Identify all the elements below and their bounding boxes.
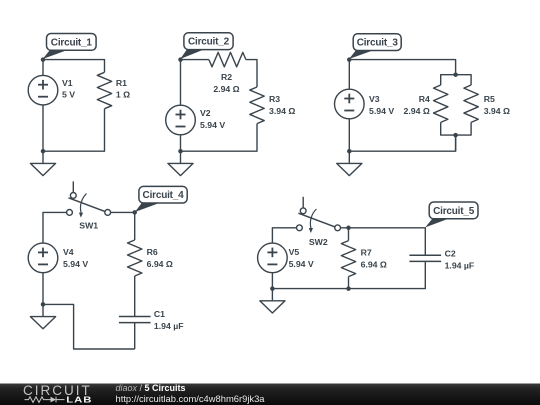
svg-text:3.94 Ω: 3.94 Ω: [269, 106, 295, 116]
svg-text:R6: R6: [147, 247, 158, 257]
svg-text:2.94 Ω: 2.94 Ω: [213, 84, 239, 94]
svg-text:Circuit_3: Circuit_3: [357, 38, 399, 49]
svg-text:1.94 µF: 1.94 µF: [445, 260, 475, 270]
svg-text:5.94 V: 5.94 V: [369, 106, 394, 116]
svg-text:C2: C2: [445, 248, 456, 258]
svg-text:2.94 Ω: 2.94 Ω: [404, 106, 430, 116]
svg-text:1.94 µF: 1.94 µF: [154, 321, 184, 331]
svg-text:http://circuitlab.com/c4w8hm6r: http://circuitlab.com/c4w8hm6r9jk3a: [116, 393, 266, 404]
svg-text:6.94 Ω: 6.94 Ω: [147, 259, 173, 269]
svg-text:C1: C1: [154, 309, 165, 319]
svg-text:R3: R3: [269, 94, 280, 104]
svg-text:Circuit_5: Circuit_5: [433, 206, 475, 217]
svg-text:V1: V1: [62, 78, 73, 88]
svg-text:3.94 Ω: 3.94 Ω: [484, 106, 510, 116]
svg-text:V3: V3: [369, 94, 380, 104]
svg-text:diaox / 5 Circuits: diaox / 5 Circuits: [116, 383, 186, 393]
svg-text:SW1: SW1: [79, 221, 98, 231]
svg-text:LAB: LAB: [66, 396, 92, 405]
svg-text:6.94 Ω: 6.94 Ω: [361, 259, 387, 269]
svg-text:R7: R7: [361, 247, 372, 257]
svg-text:R1: R1: [116, 78, 127, 88]
svg-text:R5: R5: [484, 94, 495, 104]
svg-text:Circuit_2: Circuit_2: [188, 37, 230, 48]
svg-text:5.94 V: 5.94 V: [289, 259, 314, 269]
svg-text:V5: V5: [289, 247, 300, 257]
svg-text:5.94 V: 5.94 V: [63, 259, 88, 269]
svg-text:Circuit_4: Circuit_4: [143, 190, 185, 201]
svg-text:V2: V2: [200, 108, 211, 118]
svg-text:R2: R2: [221, 72, 232, 82]
svg-text:R4: R4: [419, 94, 430, 104]
svg-text:V4: V4: [63, 247, 74, 257]
svg-text:Circuit_1: Circuit_1: [51, 37, 93, 48]
svg-text:5 V: 5 V: [62, 90, 75, 100]
svg-text:SW2: SW2: [309, 237, 328, 247]
svg-text:1 Ω: 1 Ω: [116, 90, 130, 100]
svg-text:5.94 V: 5.94 V: [200, 120, 225, 130]
